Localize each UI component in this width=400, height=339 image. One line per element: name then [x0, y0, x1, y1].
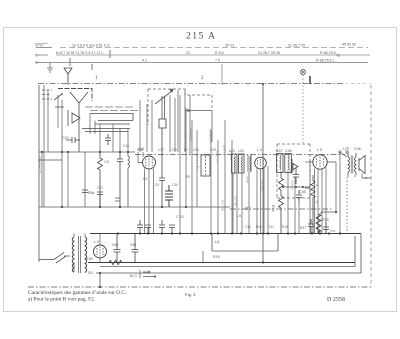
tuner 2 internal wires [140, 89, 190, 155]
svg-text:Fig. 4: Fig. 4 [185, 292, 196, 297]
svg-text:cathode: cathode [261, 180, 265, 191]
dial scale label S-97 [35, 43, 44, 47]
svg-text:ecran 85v: ecran 85v [216, 150, 220, 164]
HT line junction dots [61, 206, 187, 208]
resistor R11 tick [115, 198, 120, 201]
svg-text:R4: R4 [143, 177, 147, 181]
coil L3a [128, 152, 130, 207]
svg-text:grille 2: grille 2 [223, 145, 227, 154]
resistor R15 [316, 214, 320, 234]
svg-text:R9: R9 [186, 175, 190, 179]
svg-text:a) Pour le point R voir pag. F: a) Pour le point R voir pag. F2. [28, 296, 95, 303]
capacitor C18 [97, 192, 103, 207]
resistor R1 [98, 152, 103, 207]
svg-text:R 9,5: R 9,5 [215, 51, 224, 55]
svg-text:12 3 5 6 9 ans 9,51 C 9: 12 3 5 6 9 ans 9,51 C 9 [72, 44, 109, 48]
svg-text:S/1: S/1 [88, 271, 93, 275]
right corner nest inner [354, 236, 356, 267]
svg-text:R 68,75,9: R 68,75,9 [320, 51, 336, 55]
svg-text:R15: R15 [322, 218, 329, 222]
scale label overline [35, 42, 48, 44]
svg-text:N 50: N 50 [85, 257, 93, 261]
dial lamp [300, 69, 305, 74]
ground drop wire [99, 272, 101, 288]
svg-text:215 A: 215 A [186, 32, 216, 42]
caption line 1 [28, 290, 126, 296]
tube V3 pin wires [315, 168, 327, 234]
padder capacitor C26 [159, 128, 165, 207]
resistor R13 [311, 175, 315, 234]
earth symbol [47, 63, 53, 72]
value label 1,5 [104, 144, 129, 164]
winding label S1 [88, 271, 93, 275]
tuner 1 funnel wires [70, 92, 88, 152]
HT bus junction dots [117, 232, 341, 234]
svg-text:L 5: L 5 [317, 148, 322, 152]
mains switch [39, 253, 70, 264]
label L8 [215, 240, 219, 244]
cap labels [112, 243, 136, 247]
svg-text:1,5: 1,5 [104, 160, 109, 164]
svg-text:C33: C33 [210, 148, 216, 152]
power transformer core [79, 236, 81, 273]
svg-text:L 9: L 9 [94, 240, 99, 244]
heater bus components row [137, 220, 175, 234]
svg-text:L8: L8 [215, 240, 219, 244]
svg-text:L 2: L 2 [257, 148, 262, 152]
filter cap C53 [132, 234, 139, 263]
svg-text:C11: C11 [123, 144, 129, 148]
svg-text:7 5: 7 5 [215, 58, 220, 62]
label R19 [213, 255, 220, 259]
oscillator switch arm [155, 89, 173, 104]
dial scale label C [35, 54, 38, 58]
dial scale label R [35, 61, 38, 65]
legend marks [130, 274, 137, 278]
mains frequency label [85, 257, 93, 261]
tuner 1 stepped wires [82, 114, 133, 132]
label C45 [287, 169, 294, 173]
AF coupling wire [282, 186, 310, 188]
dial scale C numbers [56, 51, 340, 58]
mid vertical wires bundle [180, 95, 232, 234]
svg-text:R7: R7 [184, 148, 188, 152]
svg-text:b) C: b) C [130, 274, 137, 278]
detector section dashed box [277, 144, 310, 198]
svg-text:R17: R17 [300, 226, 306, 230]
dial scale line C [36, 54, 370, 56]
svg-text:antenne 1,5: antenne 1,5 [38, 156, 42, 173]
svg-text:R19: R19 [213, 255, 220, 259]
svg-text:29 23: 29 23 [225, 44, 234, 48]
svg-text:C9: C9 [155, 183, 159, 187]
pulley 1 label [95, 76, 98, 81]
heater row caps right [308, 219, 314, 234]
IF transformer T3 secondary can [285, 154, 292, 173]
label transformer [343, 147, 361, 151]
tuning gang wire [262, 83, 264, 264]
svg-text:R12: R12 [256, 225, 262, 229]
pulley 2 label [201, 76, 204, 81]
chassis outline bottom (dash-dot) [28, 286, 371, 288]
title 215 A [186, 32, 216, 42]
svg-text:L21: L21 [229, 149, 235, 153]
label R17 [300, 226, 306, 230]
svg-text:C47: C47 [276, 149, 283, 153]
svg-text:R: R [35, 61, 38, 65]
transformer terminals [339, 151, 348, 157]
right corner nest outer [96, 234, 361, 274]
svg-text:3.06: 3.06 [354, 147, 361, 151]
tuner unit 1 coil frame [58, 89, 92, 102]
component value specks row 1 [137, 148, 216, 152]
dial scale R numbers [142, 58, 335, 62]
label C46 [299, 190, 306, 194]
capacitor C16 [82, 190, 88, 193]
power transformer secondary winding [85, 237, 87, 272]
svg-text:C10: C10 [62, 136, 69, 140]
wire left mid verticals [42, 152, 85, 207]
speaker [359, 156, 365, 174]
svg-text:R11 400: R11 400 [221, 200, 225, 211]
label L2 [229, 148, 262, 153]
rectifier tube V4 [94, 245, 107, 258]
svg-text:21 26,7 25: 21 26,7 25 [288, 44, 305, 48]
dial scale line R [36, 62, 368, 64]
svg-text:R18: R18 [282, 225, 288, 229]
svg-text:C30: C30 [172, 183, 178, 187]
switch wiring gray runs [85, 107, 140, 111]
output transformer T4 primary [348, 153, 350, 175]
label C20 [176, 215, 184, 219]
IF transformer T1 can [201, 155, 210, 176]
svg-text:C45: C45 [287, 169, 294, 173]
svg-text:D 2558: D 2558 [327, 297, 345, 303]
vertical speck labels detector [246, 176, 295, 191]
svg-text:Ta: Ta [336, 54, 340, 58]
svg-text:C: C [35, 54, 38, 58]
svg-text:45 52 52: 45 52 52 [342, 43, 356, 47]
component value specks row 3 [245, 225, 288, 229]
legend arrows [140, 270, 156, 278]
caption line 2 [28, 296, 95, 303]
power transformer primary winding [72, 237, 74, 272]
band switch S1 contacts [42, 90, 64, 107]
B+ label [236, 206, 251, 218]
svg-text:plaque 250v: plaque 250v [196, 155, 200, 172]
dial scale S numbers [72, 43, 356, 48]
dial lamp lead [302, 75, 304, 145]
figure label [185, 292, 196, 297]
output transformer T4 secondary [354, 153, 356, 175]
filter choke box [203, 234, 278, 263]
resistor R8 (volume) [279, 171, 284, 196]
svg-text:C26: C26 [137, 148, 143, 152]
vertical tiny labels bundle [190, 128, 238, 211]
label R16 [271, 205, 275, 212]
rectifier output wires [99, 234, 101, 263]
IF can pin wires [233, 172, 249, 234]
labels C47 C48 [276, 149, 292, 153]
tuner unit 2 dashed box [148, 89, 212, 125]
tube V3 label L5 [317, 148, 322, 152]
svg-text:4 1: 4 1 [142, 58, 147, 62]
trimmer C3 [105, 134, 111, 145]
antenna cap C10 label [62, 136, 69, 140]
tube V2 pin wires [257, 166, 268, 234]
svg-text:oscillateur: oscillateur [190, 128, 194, 142]
ground bus [88, 262, 355, 264]
tube V1 (converter) [143, 156, 156, 169]
component value specks row 2 [143, 175, 190, 187]
electrolytic C30 [165, 185, 173, 207]
svg-text:L01: L01 [238, 149, 244, 153]
svg-text:Caractéristiques des gammes d’: Caractéristiques des gammes d’onde sur O… [28, 290, 126, 296]
IF transformer T2 secondary can [239, 154, 245, 173]
detector area verticals [288, 160, 310, 234]
svg-text:C46: C46 [299, 190, 306, 194]
svg-text:6=9,7 12 M 71,76 S 6: 6=9,7 12 M 71,76 S 6 17,71 L [56, 51, 103, 55]
main HT bus [90, 233, 361, 235]
capacitor C13 [117, 152, 123, 207]
svg-text:C41: C41 [268, 225, 274, 229]
capacitor C51 [323, 222, 329, 234]
HT dashed feed line [39, 207, 332, 209]
dial cord ticks [70, 50, 110, 70]
label C51 [330, 229, 336, 233]
grid stopper wires [305, 162, 337, 214]
svg-text:S=97: S=97 [35, 43, 44, 47]
capacitor C10 [66, 137, 80, 143]
dial scale line S [36, 47, 368, 49]
diode detector arrow [292, 159, 298, 174]
filter cap C52 [114, 234, 121, 263]
svg-text:C53: C53 [130, 243, 136, 247]
osc link wire [186, 109, 212, 142]
svg-text:diode: diode [246, 176, 250, 184]
svg-text:modulatrice: modulatrice [209, 128, 213, 144]
svg-text:21: 21 [186, 51, 190, 55]
ground bus second line [100, 266, 355, 268]
transformer top leads [74, 234, 85, 274]
label R15 [322, 218, 329, 222]
svg-text:C48: C48 [285, 149, 292, 153]
transformer core [351, 156, 353, 174]
coupling coil [248, 155, 251, 172]
antenna [64, 68, 72, 85]
resistor R16 [279, 196, 284, 234]
tube V2 (IF/detector) [255, 157, 267, 169]
label R5a [88, 186, 103, 195]
chassis outline top (dash-dot) [38, 83, 371, 85]
tube V3 (output) [313, 155, 327, 169]
IF transformer T2 primary can [232, 154, 238, 173]
AVC line (dash-dot) [39, 152, 345, 155]
svg-text:C17: C17 [97, 186, 103, 190]
svg-text:R16: R16 [271, 205, 275, 212]
svg-text:R5a: R5a [88, 191, 94, 195]
wave switch arrow [68, 110, 80, 126]
svg-text:C29: C29 [171, 148, 177, 152]
svg-text:C31: C31 [193, 148, 199, 152]
svg-text:C14: C14 [245, 225, 251, 229]
svg-text:L75: L75 [343, 147, 349, 151]
rectifier label [94, 240, 99, 244]
tube V1 label L1A [138, 147, 145, 151]
resistor R20 horizontal [109, 260, 122, 264]
tuner 1 internal wires [48, 90, 128, 152]
capacitor C46 [296, 190, 302, 203]
svg-text:(g*): (g*) [245, 206, 251, 210]
IF transformer T3 primary can [277, 154, 284, 173]
svg-text:21 26,7 25 26: 21 26,7 25 26 [258, 51, 280, 55]
pointer tick [309, 76, 311, 84]
svg-text:C52: C52 [112, 243, 118, 247]
capacitor C45 [293, 168, 299, 184]
left chassis edge wire [38, 85, 40, 262]
tube V1 pin wires [138, 152, 154, 234]
dial cord drop wire [221, 64, 223, 85]
second left vertical wire [39, 85, 62, 207]
speaker leads [348, 174, 371, 179]
oscillator coil L2 [159, 96, 166, 128]
AVC junction dots [41, 151, 129, 153]
svg-text:C27: C27 [158, 148, 164, 152]
chassis outline right [370, 85, 372, 287]
R13 tick labels [316, 183, 319, 204]
left column vertical label [38, 156, 42, 173]
svg-text:C51: C51 [330, 229, 336, 233]
svg-text:volume: volume [291, 180, 295, 190]
drawing number D2558 [327, 297, 345, 303]
right vertical wires [340, 152, 347, 234]
svg-text:R 68,75,5 L: R 68,75,5 L [316, 58, 335, 62]
